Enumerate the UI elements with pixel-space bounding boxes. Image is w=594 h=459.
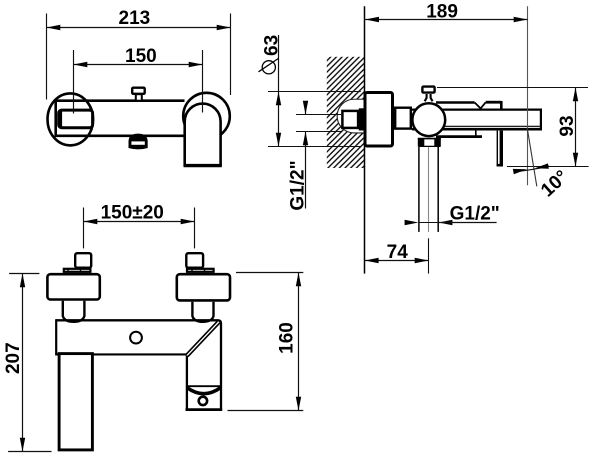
hose nut bottom line xyxy=(419,145,440,147)
hose line right xyxy=(437,147,439,232)
dim G12 inlet lower line xyxy=(305,132,307,209)
lever handle bottom edge xyxy=(184,164,222,167)
G12 hose dim arrows xyxy=(418,222,438,224)
dim G12 inlet bottom extension xyxy=(296,131,341,133)
spout window xyxy=(59,110,93,128)
G12 hose leader xyxy=(439,222,497,224)
body bottom line xyxy=(55,353,186,355)
left nut ticks xyxy=(67,268,69,273)
dim 160 bottom extension xyxy=(228,410,304,412)
dim 213 right extension xyxy=(230,14,232,96)
spout window thick left edge xyxy=(58,111,62,128)
dia symbol xyxy=(262,61,275,74)
dim G12 inlet upper tail xyxy=(305,102,307,115)
left pipe xyxy=(63,301,85,322)
angle slant line xyxy=(527,128,537,187)
right flange block xyxy=(177,274,230,300)
outlet small circle xyxy=(199,397,207,405)
svg-text:93: 93 xyxy=(557,115,578,136)
svg-text:150: 150 xyxy=(125,46,157,67)
svg-text:63: 63 xyxy=(262,35,283,56)
outlet bottom line xyxy=(186,408,223,411)
spout bar inner line xyxy=(430,125,540,127)
neck xyxy=(395,108,411,129)
dim 150pm20 right extension xyxy=(194,208,196,249)
hose line left xyxy=(418,147,420,232)
tub spout column xyxy=(59,354,92,450)
wall surface line xyxy=(364,6,366,273)
right flange circle xyxy=(183,93,230,140)
body screw circle xyxy=(130,332,142,344)
svg-text:G1/2": G1/2" xyxy=(450,204,500,225)
dim 160 top extension xyxy=(236,272,303,274)
angle arc xyxy=(514,166,549,172)
svg-text:207: 207 xyxy=(3,342,24,374)
bottom outlet boss xyxy=(129,134,148,150)
svg-text:160: 160 xyxy=(277,322,298,354)
diverter knob stem xyxy=(136,94,142,101)
dim 150pm20 left extension xyxy=(83,208,85,249)
diverter knob stem (side) xyxy=(425,94,433,101)
diagonal chamfer line 2 xyxy=(188,323,220,357)
svg-text:150±20: 150±20 xyxy=(101,203,164,224)
svg-text:74: 74 xyxy=(387,242,409,263)
dim 207 line xyxy=(22,274,24,452)
left inlet stem xyxy=(75,253,91,268)
lever cap right edge xyxy=(500,101,503,110)
bottom outlet slot xyxy=(131,141,144,144)
under-bar connector xyxy=(475,131,477,137)
dim 189 line xyxy=(365,19,527,21)
right nut ticks xyxy=(191,268,193,273)
left flange circle xyxy=(48,93,94,145)
diverter knob cap xyxy=(132,88,145,94)
hose nut top line xyxy=(418,138,441,140)
inlet connector xyxy=(359,108,364,130)
hose nut right block xyxy=(434,138,441,147)
dim 207 bottom extension xyxy=(8,451,51,453)
diagonal chamfer line 1 xyxy=(185,321,217,355)
spout bar right end cap xyxy=(540,109,542,131)
left inlet nut xyxy=(64,269,91,272)
dim d63 bottom extension xyxy=(268,146,361,148)
dim 74 right extension xyxy=(428,238,430,273)
dim 74 line xyxy=(365,260,429,262)
dim 150 right extension xyxy=(202,50,204,113)
outlet column left edge xyxy=(186,356,188,410)
hose nut left block xyxy=(418,138,425,147)
handle lever bottom xyxy=(497,164,503,167)
hose centerline xyxy=(428,147,430,232)
body left edge xyxy=(55,319,57,354)
body cap above bar xyxy=(436,101,475,104)
right inlet nut xyxy=(187,269,214,272)
spout bar bottom band xyxy=(412,128,542,131)
mixer body outline xyxy=(56,101,185,136)
dim 213 line xyxy=(47,27,231,29)
dim d63 top extension xyxy=(268,91,361,93)
diverter knob cap (side) xyxy=(422,87,434,93)
dim G12 inlet top extension xyxy=(296,114,341,116)
svg-text:G1/2": G1/2" xyxy=(287,160,308,210)
dim 160 line xyxy=(298,273,300,411)
dim 150 left extension xyxy=(73,50,75,114)
dim 93 bottom extension xyxy=(507,166,589,168)
dim 213 left extension xyxy=(46,14,48,100)
dim 150 line xyxy=(74,64,203,66)
left flange block xyxy=(47,274,99,299)
lever cap top xyxy=(486,101,502,104)
dim 93 top extension xyxy=(437,87,588,89)
dim d63 line xyxy=(278,35,280,147)
outlet separator line xyxy=(186,385,221,387)
handle lever right band xyxy=(500,131,503,166)
dim 150pm20 line xyxy=(84,221,195,223)
dim 93 line xyxy=(575,88,577,167)
body top and right edge xyxy=(56,320,221,410)
lever handle (front) xyxy=(185,104,221,166)
right inlet stem xyxy=(186,253,203,268)
wall hatched section xyxy=(327,57,365,168)
dim 207 top extension xyxy=(9,273,39,275)
right pipe xyxy=(192,302,213,322)
spout bar top line xyxy=(412,108,541,110)
svg-text:189: 189 xyxy=(426,2,458,23)
spout axis reference line xyxy=(527,6,529,185)
V notch xyxy=(475,102,486,108)
valve ball xyxy=(412,103,445,136)
wall recess xyxy=(337,99,364,133)
outlet dome arc xyxy=(187,388,221,394)
inlet pipe xyxy=(342,111,358,128)
under-bar body line xyxy=(436,135,482,138)
handle lever left line xyxy=(496,131,498,166)
spout bar body xyxy=(412,108,542,130)
escutcheon flange (side) xyxy=(365,93,393,147)
svg-text:213: 213 xyxy=(119,8,151,29)
